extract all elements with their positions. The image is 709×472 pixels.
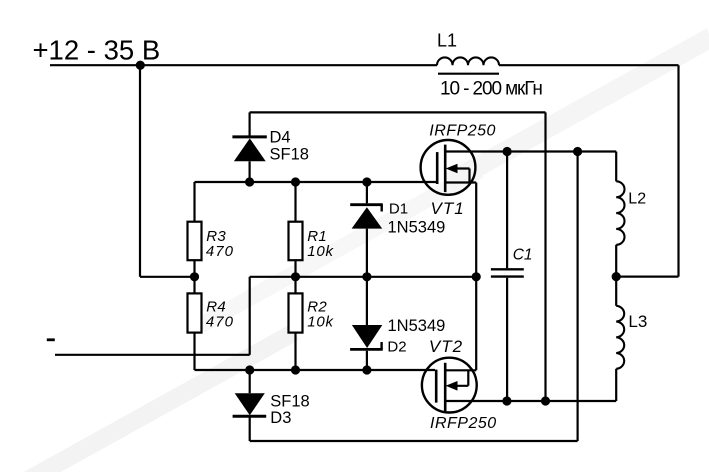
wire R1 top lead bbox=[294, 182, 296, 222]
svg-text:D1: D1 bbox=[389, 201, 408, 218]
transistor VT1 gate bar bbox=[436, 152, 439, 184]
svg-text:SF18: SF18 bbox=[270, 145, 309, 163]
svg-text:IRFP250: IRFP250 bbox=[430, 415, 497, 432]
wire middle minus bus bbox=[250, 276, 477, 278]
svg-text:1N5349: 1N5349 bbox=[388, 317, 446, 335]
wire D4 anode lead bbox=[249, 161, 251, 182]
wire minus drop bbox=[249, 277, 251, 355]
svg-text:SF18: SF18 bbox=[270, 392, 309, 410]
transistor VT2 body arrow shaft bbox=[452, 370, 468, 386]
resistor R1 bbox=[289, 222, 303, 261]
node gate bus 1 / R1 bbox=[291, 177, 300, 186]
svg-text:D3: D3 bbox=[270, 409, 291, 427]
wire center tap bbox=[616, 276, 678, 278]
resistor R4 bbox=[188, 293, 202, 332]
wire right edge down bbox=[677, 65, 679, 276]
node gate bus 1 / D4 bbox=[245, 177, 254, 186]
wire D1-D2 middle leads bbox=[366, 229, 368, 325]
wire C1 top lead bbox=[506, 152, 508, 269]
svg-text:VT1: VT1 bbox=[431, 199, 465, 218]
transistor VT1 arrowhead bbox=[446, 164, 458, 174]
wire R4 bottom lead bbox=[193, 333, 195, 370]
inductor L2 bbox=[616, 181, 624, 244]
svg-text:IRFP250: IRFP250 bbox=[429, 123, 496, 140]
diode D3 bbox=[233, 393, 267, 416]
svg-text:VT2: VT2 bbox=[429, 337, 463, 356]
node gate bus 2 / R2 bbox=[291, 365, 300, 374]
wire left vertical from +V bbox=[140, 65, 195, 277]
wire D3 anode lead bbox=[249, 370, 251, 393]
transistor VT2 channel bar bbox=[444, 363, 447, 411]
wire D4 cathode to cross link bbox=[250, 112, 546, 401]
diode D4 bbox=[232, 137, 266, 161]
wire VT2 drain line bbox=[445, 400, 616, 402]
svg-text:D4: D4 bbox=[270, 129, 291, 147]
transistor VT2 body circle bbox=[422, 358, 477, 413]
svg-text:1N5349: 1N5349 bbox=[388, 219, 446, 237]
node drain2 / D4 link bbox=[541, 396, 550, 405]
wire D1 top lead bbox=[366, 182, 368, 203]
wire R3-R4 leads bbox=[193, 260, 195, 293]
zener D1 bbox=[350, 205, 383, 229]
svg-text:10 - 200 мкГн: 10 - 200 мкГн bbox=[440, 79, 542, 100]
wire D2 bottom lead bbox=[366, 351, 368, 370]
node drain1 / D3 link bbox=[573, 147, 582, 156]
resistor R2 bbox=[289, 293, 303, 332]
wire R1-R2 leads bbox=[294, 260, 296, 293]
zener D2 bbox=[350, 325, 383, 349]
wire L3 bottom lead bbox=[615, 369, 617, 401]
transistor VT1 bbox=[421, 140, 617, 370]
wire top rail right bbox=[499, 64, 679, 66]
svg-text:10k: 10k bbox=[307, 313, 334, 330]
wire R2 bottom lead bbox=[294, 333, 296, 370]
wire gate bus 2 bbox=[195, 369, 436, 371]
node gate bus 2 / D2 bbox=[362, 365, 371, 374]
wire top rail left bbox=[50, 64, 437, 66]
svg-text:470: 470 bbox=[206, 243, 234, 260]
L1 core bar bbox=[438, 73, 499, 75]
transistor VT1 channel bar bbox=[444, 145, 447, 193]
capacitor C1 plates bbox=[491, 269, 524, 276]
svg-text:C1: C1 bbox=[513, 246, 533, 263]
svg-text:10k: 10k bbox=[307, 243, 334, 260]
svg-text:470: 470 bbox=[206, 313, 234, 330]
node minus bus / R1R2 bbox=[291, 272, 300, 281]
wire L3 top lead bbox=[615, 277, 617, 306]
transistor VT2 gate bar bbox=[435, 370, 438, 403]
wire VT2 source line bbox=[445, 369, 476, 371]
inductor L3 bbox=[616, 306, 624, 369]
svg-text:L3: L3 bbox=[628, 312, 647, 331]
transistor VT1 body circle bbox=[421, 140, 476, 195]
node minus bus / sources bbox=[472, 272, 481, 281]
node drain2 / C1 bbox=[502, 396, 511, 405]
wire L2 top lead bbox=[615, 152, 617, 182]
node label minus bbox=[47, 338, 55, 341]
node center tap bbox=[612, 272, 621, 281]
node drain1 / C1 bbox=[503, 147, 512, 156]
wire gate bus 1 bbox=[195, 181, 437, 183]
wire L2 bottom lead bbox=[615, 245, 617, 277]
node +V junction bbox=[136, 61, 145, 70]
transistor VT1 body arrow shaft bbox=[452, 169, 470, 183]
resistor R3 bbox=[188, 222, 202, 261]
wire VT1 source line bbox=[445, 183, 476, 371]
node minus bus / R3R4 bbox=[190, 272, 199, 281]
inductor L1 bbox=[437, 57, 499, 65]
wire D3 cathode to cross link bbox=[250, 152, 578, 442]
wire R3 top lead bbox=[193, 182, 195, 222]
wire minus terminal bbox=[55, 354, 250, 356]
svg-text:D2: D2 bbox=[387, 339, 406, 356]
svg-text:L2: L2 bbox=[628, 191, 646, 208]
wire VT1 drain line bbox=[445, 150, 616, 152]
node minus bus / D1D2 bbox=[362, 272, 371, 281]
node gate bus 2 / D3 bbox=[245, 365, 254, 374]
transistor VT2 arrowhead bbox=[446, 381, 458, 391]
wire C1 bottom lead bbox=[506, 278, 508, 401]
transistor VT2 bbox=[422, 358, 616, 413]
svg-text:+12 - 35 В: +12 - 35 В bbox=[33, 35, 161, 66]
node gate bus 1 / D1 bbox=[362, 177, 371, 186]
svg-text:L1: L1 bbox=[437, 31, 457, 51]
